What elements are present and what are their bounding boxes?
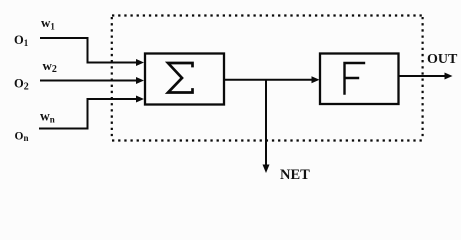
wire input n xyxy=(39,99,138,129)
label O2 xyxy=(14,77,29,93)
node NET junction xyxy=(265,80,267,165)
sigma symbol xyxy=(168,63,193,93)
dashed neuron boundary xyxy=(112,16,424,141)
arrow input 2 into summer xyxy=(136,77,144,84)
arrow OUT xyxy=(445,73,453,80)
label wn xyxy=(40,109,55,125)
arrow into F block xyxy=(312,76,320,83)
activation block box F xyxy=(320,54,399,105)
svg-text:O1: O1 xyxy=(14,33,29,48)
summation block box xyxy=(145,54,224,105)
label O1 xyxy=(14,33,29,48)
svg-text:OUT: OUT xyxy=(427,52,458,67)
label w2 xyxy=(43,58,57,75)
label On xyxy=(15,131,29,144)
label OUT xyxy=(427,52,458,67)
label w1 xyxy=(41,15,55,32)
svg-text:w2: w2 xyxy=(43,58,57,75)
wire input 2 xyxy=(40,80,138,82)
svg-text:On: On xyxy=(15,131,29,144)
wire summer output to F xyxy=(225,79,314,81)
svg-text:O2: O2 xyxy=(14,77,29,93)
arrow input n into summer xyxy=(136,96,144,103)
arrow input 1 into summer xyxy=(136,59,144,66)
label NET xyxy=(280,167,310,183)
svg-text:wn: wn xyxy=(40,109,55,125)
svg-text:NET: NET xyxy=(280,167,310,183)
wire F output xyxy=(399,75,446,77)
svg-text:w1: w1 xyxy=(41,15,55,32)
F symbol xyxy=(345,63,365,94)
wire input 1 xyxy=(40,38,138,63)
arrow NET down xyxy=(263,165,270,174)
